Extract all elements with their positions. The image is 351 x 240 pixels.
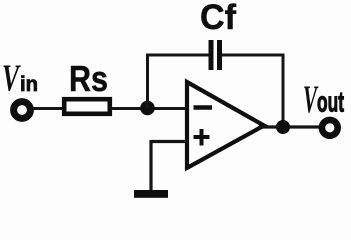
op-amp U1 <box>187 82 264 168</box>
svg-text:Cf: Cf <box>200 0 236 37</box>
junction node output <box>276 120 290 134</box>
terminal Vout <box>322 120 338 136</box>
capacitor Cf plate 1 <box>209 40 214 70</box>
wire feedback top left segment <box>146 54 209 57</box>
wire feedback left vertical <box>146 54 149 109</box>
svg-text:Rs: Rs <box>69 58 108 99</box>
wire feedback right vertical <box>282 55 285 122</box>
op-amp U1 non-inverting input plus sign <box>194 129 210 146</box>
wire op-amp output <box>262 125 322 128</box>
resistor Rs <box>64 99 110 114</box>
svg-text:in: in <box>20 73 38 96</box>
wire feedback top right segment <box>222 54 285 57</box>
node Vout label <box>303 78 344 121</box>
wire Rs to op-amp inverting input <box>112 107 187 110</box>
capacitor Cf plate 2 <box>217 40 222 70</box>
node Vin label <box>2 58 38 100</box>
junction node A <box>140 101 155 116</box>
svg-text:V: V <box>2 58 21 100</box>
op-amp U1 inverting input minus sign <box>194 105 213 110</box>
wire Vin to Rs <box>33 107 63 110</box>
wire non-inverting input horizontal <box>151 140 188 143</box>
ground <box>134 190 168 198</box>
wire non-inverting input vertical to ground <box>149 140 152 190</box>
svg-text:out: out <box>317 87 344 119</box>
terminal Vin <box>14 102 31 119</box>
